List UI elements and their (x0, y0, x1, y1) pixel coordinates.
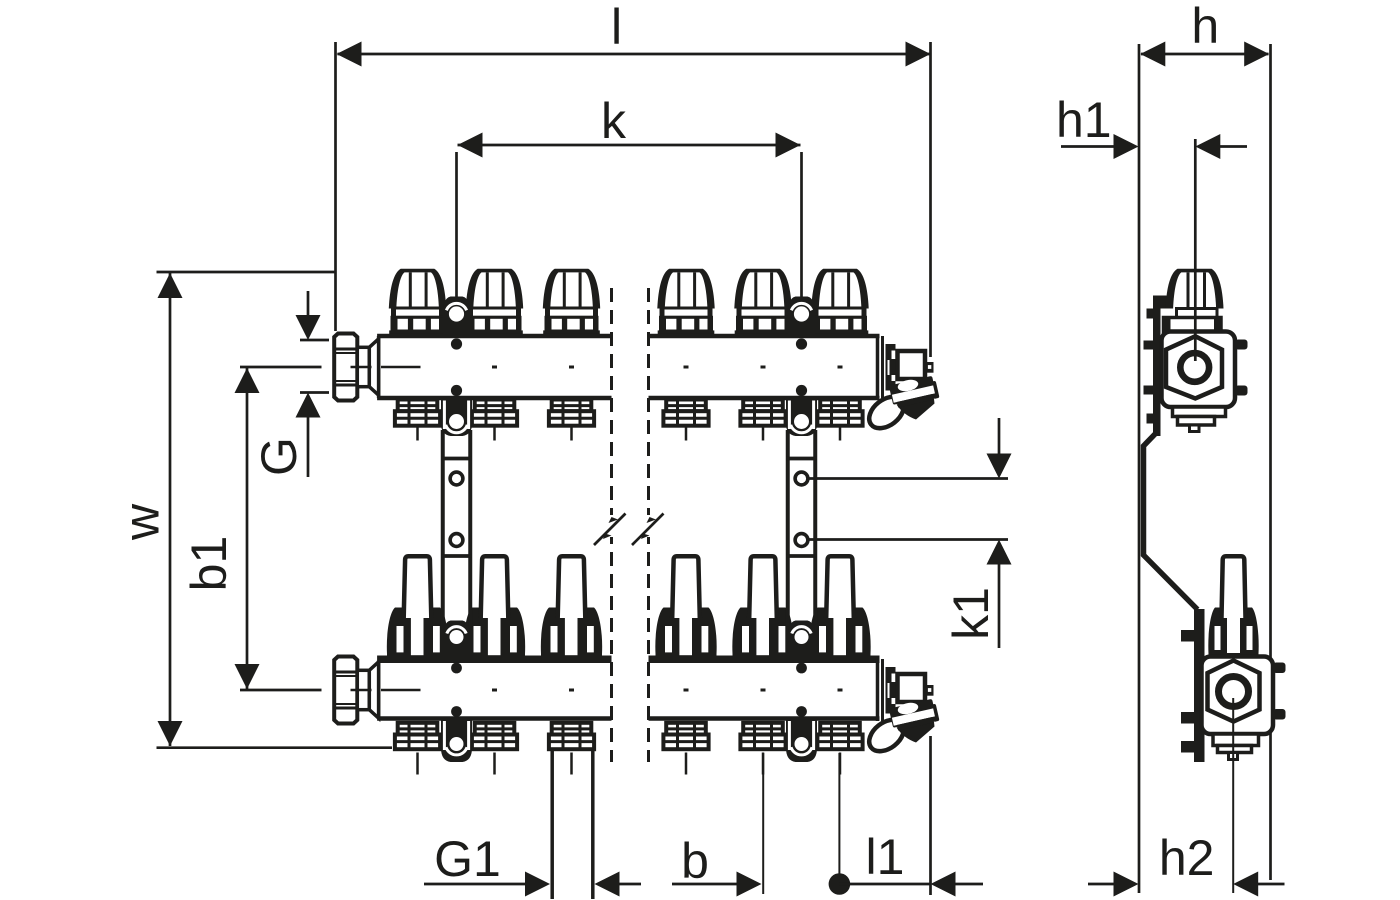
extension line k right (800, 152, 803, 307)
dimension k1 (807, 418, 1012, 648)
side port circle top (1180, 353, 1209, 382)
break line right (647, 288, 650, 762)
side hex nut bottom (1208, 661, 1260, 722)
extension line h left (1138, 44, 1141, 893)
svg-text:w: w (114, 503, 170, 541)
side block right tabs top (1235, 340, 1248, 396)
valve cap 5 (734, 269, 791, 335)
dimension l (337, 0, 931, 67)
bottom manifold centerline (351, 689, 843, 692)
dimension h1 (1056, 92, 1247, 159)
bottom outlet fitting 5 (740, 723, 785, 775)
dimension G (251, 291, 329, 477)
svg-text:b1: b1 (181, 536, 237, 592)
dimension h (1140, 0, 1269, 67)
top outlet fitting 4 (663, 400, 708, 441)
top outlet fitting 1 (395, 400, 440, 441)
top outlet fitting 5 (740, 400, 785, 441)
side hex nut top (1166, 336, 1222, 398)
extension line w bottom (157, 746, 393, 749)
extension line l1 right (929, 736, 932, 895)
bottom outlet fitting 3 (549, 723, 594, 775)
flow meter 2 (464, 556, 525, 661)
side bracket bar top (1144, 296, 1167, 437)
outlet 6 centerline extension (838, 753, 840, 874)
mounting bracket 2 (786, 297, 817, 763)
extension line b1 top (240, 366, 322, 369)
side manifold block bottom (1202, 657, 1274, 735)
top manifold centerline (351, 366, 843, 369)
dimension l1 (829, 829, 983, 897)
svg-text:G: G (251, 437, 307, 476)
flow meter 5 (732, 556, 793, 661)
svg-text:l1: l1 (866, 829, 905, 885)
end valve bottom (863, 659, 939, 758)
flow meter 4 (655, 556, 716, 661)
side block right tabs bottom (1273, 663, 1286, 720)
side manifold block top (1162, 332, 1236, 408)
flow meter 3 (541, 556, 602, 661)
valve cap 3 (543, 269, 600, 335)
extension line l left (334, 42, 337, 331)
svg-text:k: k (601, 93, 627, 149)
valve cap 1 (389, 269, 446, 335)
dimension G1 (424, 831, 641, 897)
side bracket bar bottom (1181, 609, 1205, 762)
side valve cap (1164, 269, 1224, 334)
svg-text:h: h (1191, 0, 1219, 54)
svg-text:h1: h1 (1056, 92, 1112, 148)
svg-text:G1: G1 (434, 831, 501, 887)
extension line w top (157, 271, 337, 274)
break line left (610, 288, 613, 762)
bottom outlet fitting 6 (817, 723, 862, 775)
bottom outlet fitting 4 (663, 723, 708, 775)
union nut bottom (334, 657, 378, 724)
svg-text:l: l (611, 0, 622, 55)
top manifold body (377, 336, 879, 398)
mounting bracket 1 (441, 297, 472, 763)
side valve centerline (1194, 139, 1197, 361)
extension line h right (1269, 44, 1272, 880)
bottom outlet fitting 2 (472, 723, 517, 775)
extension line b1 bottom (240, 689, 322, 692)
valve cap 2 (466, 269, 523, 335)
flow meter 1 (387, 556, 448, 661)
side steps top (1173, 407, 1226, 432)
dimension b1 (181, 368, 260, 689)
top outlet fitting 6 (817, 400, 862, 441)
side flow meter (1208, 556, 1258, 660)
side port circle bottom (1219, 677, 1249, 707)
dimension b (672, 833, 762, 897)
dimension w (114, 273, 183, 746)
flow meter 6 (809, 556, 870, 661)
side steps bottom (1213, 734, 1259, 760)
dimension h2 (1088, 830, 1285, 897)
union nut top (334, 334, 378, 401)
dimension k (458, 93, 801, 158)
extension line k left (455, 152, 458, 307)
outlet 5 centerline extension (762, 753, 764, 894)
extension line l right (929, 42, 932, 357)
top outlet fitting 2 (472, 400, 517, 441)
connection pipe G1 (552, 751, 593, 899)
end valve top (863, 336, 939, 435)
top outlet fitting 3 (549, 400, 594, 441)
valve cap 6 (811, 269, 868, 335)
svg-text:b: b (681, 833, 709, 889)
side bottom valve centerline (1232, 698, 1234, 893)
bottom outlet fitting 1 (395, 723, 440, 775)
bottom manifold body (377, 656, 879, 719)
break mark right (632, 514, 664, 546)
side bracket strap (1144, 432, 1198, 610)
valve cap 4 (657, 269, 714, 335)
break mark left (594, 514, 626, 546)
svg-text:h2: h2 (1159, 830, 1215, 886)
svg-text:k1: k1 (943, 587, 999, 640)
